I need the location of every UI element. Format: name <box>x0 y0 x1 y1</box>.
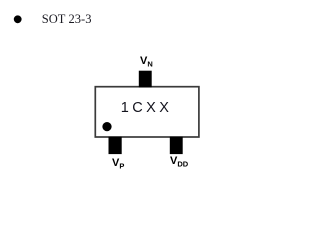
marking text 1CXX <box>121 100 172 116</box>
pin 1 VP pad (bottom left) <box>109 137 122 154</box>
pin 2 VDD pad (bottom right) <box>170 137 183 154</box>
bullet <box>14 15 22 23</box>
package body U1 (SOT 23-3 outline) <box>95 87 199 137</box>
label VDD <box>170 155 188 169</box>
pin 1 marker dot <box>102 122 111 131</box>
pin 3 VN pad (top) <box>139 71 152 88</box>
label SOT 23-3 <box>42 13 92 25</box>
label VN <box>140 55 153 69</box>
label VP <box>112 157 124 171</box>
